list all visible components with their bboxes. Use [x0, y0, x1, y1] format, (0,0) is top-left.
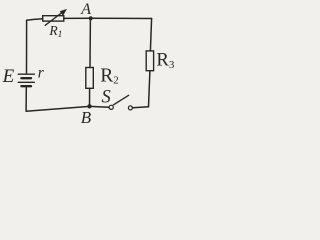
- resistor R2 body: [86, 68, 94, 89]
- battery cell plate long top: [18, 73, 34, 75]
- wire right vertical lower: [149, 71, 150, 107]
- wire left vertical (battery bottom): [25, 87, 27, 111]
- battery cell plate short thick: [21, 77, 31, 79]
- svg-text:A: A: [80, 1, 91, 18]
- wire top-left horizontal: [27, 19, 43, 21]
- wire right vertical upper: [150, 19, 151, 51]
- battery cell plate short thick lower: [21, 85, 31, 87]
- wire middle branch R2 to B: [89, 88, 91, 106]
- switch S contact circle right: [128, 106, 132, 110]
- resistor R3 body: [146, 51, 153, 71]
- battery cell plate long lower: [18, 81, 34, 83]
- switch S lever: [114, 95, 129, 105]
- wire bottom-left to node B: [26, 106, 89, 111]
- wire middle branch A to R2: [89, 18, 91, 67]
- node A junction dot: [89, 16, 93, 20]
- svg-text:B: B: [81, 108, 92, 127]
- wire switch to bottom-right corner: [133, 107, 149, 108]
- rheostat R1 arrow: [45, 13, 62, 26]
- wire left vertical (battery top): [26, 20, 28, 73]
- switch S contact circle left: [109, 105, 113, 109]
- node B junction dot: [87, 104, 91, 108]
- wire top from R1 to node A: [64, 17, 91, 19]
- svg-text:S: S: [102, 88, 111, 108]
- svg-text:r: r: [38, 64, 45, 81]
- wire top from node A to top-right corner: [91, 17, 152, 19]
- rheostat R1 body: [43, 16, 64, 21]
- svg-text:E: E: [2, 66, 15, 87]
- wire node B to switch: [90, 105, 110, 108]
